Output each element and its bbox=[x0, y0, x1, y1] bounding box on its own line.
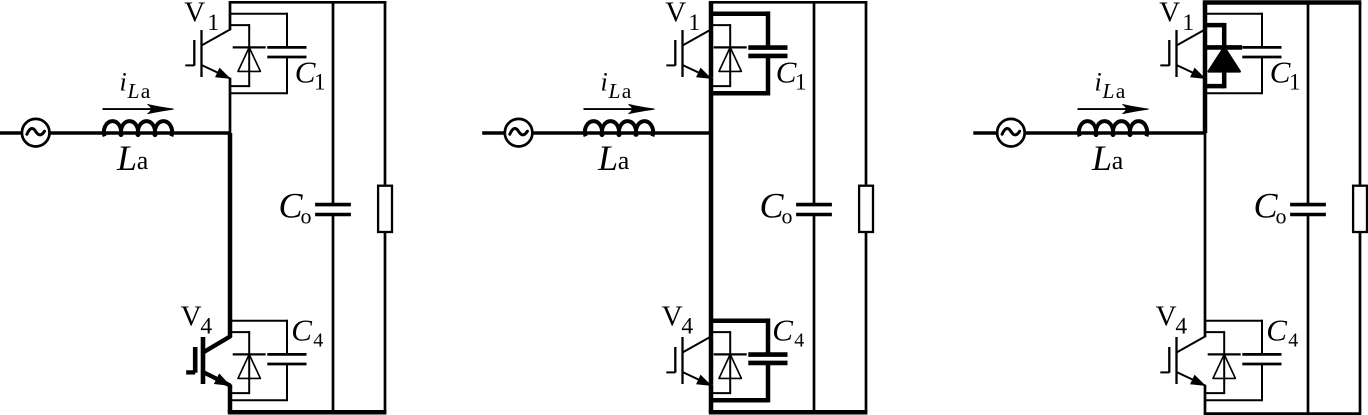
wire: main leg, top rail to V1 collector (circuit 2) bbox=[709, 2, 714, 30]
wire: bottom DC rail (circuit 1) bbox=[228, 410, 387, 415]
svg-text:a: a bbox=[1112, 146, 1124, 175]
wire: main leg, V4 emitter to bottom rail (circuit 1) bbox=[228, 385, 233, 412]
wire: load column upper segment (circuit 2) bbox=[865, 2, 868, 184]
svg-text:o: o bbox=[1276, 204, 1287, 229]
svg-text:a: a bbox=[1116, 79, 1126, 103]
label C_o (circuit 1) bbox=[279, 186, 312, 229]
wire: main leg through V4 span (circuit 2) bbox=[709, 337, 714, 385]
svg-text:V: V bbox=[665, 0, 686, 29]
wire: load column upper segment (circuit 3) bbox=[1359, 3, 1362, 185]
wire: main leg, top rail to V1 collector (circuit 1) bbox=[229, 2, 232, 30]
AC source (circuit 1) bbox=[22, 119, 50, 147]
load resistor (circuit 2) bbox=[859, 186, 873, 232]
svg-text:4: 4 bbox=[200, 313, 212, 339]
IGBT V1 (circuit 3) bbox=[1160, 30, 1205, 79]
label C4 (circuit 3) bbox=[1266, 313, 1298, 352]
svg-text:L: L bbox=[1102, 79, 1115, 103]
wire: bottom DC rail (circuit 2) bbox=[709, 410, 868, 415]
label V4 (circuit 2) bbox=[662, 300, 694, 339]
label i_La (circuit 2) bbox=[601, 68, 632, 103]
svg-text:4: 4 bbox=[1288, 329, 1298, 351]
svg-text:1: 1 bbox=[1289, 70, 1301, 95]
wire: main leg, V1 emitter to midpoint node (circuit 2) bbox=[709, 78, 714, 133]
label C4 (circuit 1) bbox=[291, 313, 323, 352]
svg-text:a: a bbox=[137, 146, 149, 175]
inductor La (circuit 2) bbox=[585, 121, 653, 136]
capacitor C1, snubber across V1 (circuit 1) bbox=[230, 13, 307, 95]
svg-text:i: i bbox=[601, 68, 608, 97]
AC source (circuit 2) bbox=[505, 119, 533, 147]
load resistor (circuit 1) bbox=[378, 186, 392, 232]
label C1 (circuit 1) bbox=[295, 55, 326, 95]
svg-text:L: L bbox=[608, 79, 621, 103]
label L_a (circuit 3) bbox=[1091, 138, 1124, 178]
svg-text:o: o bbox=[782, 204, 793, 229]
wire: load column lower segment (circuit 1) bbox=[384, 233, 387, 412]
capacitor C4, snubber across V4 (circuit 2) bbox=[711, 318, 788, 402]
svg-text:1: 1 bbox=[688, 10, 700, 36]
wire: Co column lower segment (circuit 2) bbox=[813, 215, 816, 413]
svg-text:C: C bbox=[776, 55, 797, 90]
label V1 (circuit 2) bbox=[665, 0, 700, 36]
label L_a (circuit 2) bbox=[597, 138, 630, 178]
wire: bottom DC rail (circuit 3) bbox=[1204, 412, 1362, 415]
wire: Co column lower segment (circuit 1) bbox=[332, 215, 335, 413]
svg-text:1: 1 bbox=[795, 70, 807, 95]
svg-text:C: C bbox=[1266, 313, 1287, 348]
svg-text:a: a bbox=[618, 146, 630, 175]
capacitor C1, snubber across V1 (circuit 2) bbox=[711, 11, 788, 95]
wire: Co column upper segment (circuit 1) bbox=[332, 2, 335, 204]
wire: load column lower segment (circuit 2) bbox=[865, 233, 868, 412]
wire: main leg, V4 emitter to bottom rail (circuit 2) bbox=[709, 385, 714, 412]
wire: AC input line to bridge midpoint (circuit 3) bbox=[973, 131, 1205, 135]
wire: main leg, top rail to V1 collector (circuit 3) bbox=[1203, 3, 1208, 31]
wire: main leg, midpoint node to V4 collector (circuit 2) bbox=[709, 133, 714, 337]
svg-text:V: V bbox=[184, 0, 205, 29]
svg-text:4: 4 bbox=[1175, 313, 1187, 339]
label C1 (circuit 3) bbox=[1270, 55, 1301, 95]
svg-text:C: C bbox=[295, 55, 316, 90]
diode D1, antiparallel with V1 (circuit 2) bbox=[711, 24, 747, 87]
IGBT V4 (circuit 3) bbox=[1160, 337, 1205, 386]
svg-text:4: 4 bbox=[313, 329, 323, 351]
label C_o (circuit 2) bbox=[760, 186, 793, 229]
svg-text:V: V bbox=[181, 300, 202, 332]
svg-text:V: V bbox=[1159, 0, 1180, 29]
label V4 (circuit 1) bbox=[181, 300, 213, 339]
wire: main leg, midpoint node to V4 collector (circuit 3) bbox=[1204, 133, 1207, 337]
diode D4, antiparallel with V4 (circuit 2) bbox=[711, 331, 747, 394]
diode D1, antiparallel with V1 (circuit 3) bbox=[1205, 23, 1242, 88]
wire: Co column lower segment (circuit 3) bbox=[1307, 215, 1310, 414]
current arrow iLa (circuit 2) bbox=[584, 108, 647, 110]
label C4 (circuit 2) bbox=[772, 313, 804, 352]
current arrow iLa (circuit 3) bbox=[1078, 108, 1141, 110]
label L_a (circuit 1) bbox=[116, 138, 149, 178]
diode D1, antiparallel with V1 (circuit 1) bbox=[230, 24, 266, 87]
label V4 (circuit 3) bbox=[1156, 300, 1188, 339]
capacitor C1, snubber across V1 (circuit 3) bbox=[1205, 13, 1282, 95]
wire: main leg, V4 emitter to bottom rail (circuit 3) bbox=[1204, 385, 1207, 414]
label i_La (circuit 3) bbox=[1095, 68, 1126, 103]
svg-text:L: L bbox=[116, 138, 137, 178]
load resistor (circuit 3) bbox=[1353, 186, 1367, 232]
svg-text:1: 1 bbox=[1182, 10, 1194, 36]
label V1 (circuit 3) bbox=[1159, 0, 1194, 36]
wire: main leg through V1 span (circuit 3) bbox=[1203, 30, 1208, 78]
svg-text:i: i bbox=[120, 68, 127, 97]
label i_La (circuit 1) bbox=[120, 68, 151, 103]
current arrow iLa (circuit 1) bbox=[103, 108, 166, 110]
label C_o (circuit 3) bbox=[1254, 186, 1287, 229]
svg-text:L: L bbox=[597, 138, 618, 178]
inductor La (circuit 1) bbox=[104, 121, 172, 136]
wire: main leg, V1 emitter to midpoint node (circuit 3) bbox=[1203, 78, 1208, 133]
capacitor Co (circuit 1) bbox=[315, 205, 351, 215]
wire: AC input line to bridge midpoint (circuit 1) bbox=[0, 131, 230, 135]
svg-text:V: V bbox=[662, 300, 683, 332]
wire: AC input line to bridge midpoint (circuit 2) bbox=[482, 131, 711, 135]
svg-text:4: 4 bbox=[681, 313, 693, 339]
svg-text:C: C bbox=[772, 313, 793, 348]
diode D4, antiparallel with V4 (circuit 1) bbox=[230, 331, 266, 394]
IGBT V4 (circuit 2) bbox=[666, 337, 711, 386]
AC source (circuit 3) bbox=[997, 119, 1025, 147]
wire: top DC rail (circuit 3) bbox=[1203, 0, 1362, 5]
svg-text:L: L bbox=[1091, 138, 1112, 178]
svg-text:1: 1 bbox=[314, 70, 326, 95]
IGBT V1 (circuit 1) bbox=[185, 30, 230, 79]
capacitor Co (circuit 3) bbox=[1290, 205, 1326, 215]
svg-text:C: C bbox=[291, 313, 312, 348]
svg-text:L: L bbox=[127, 79, 140, 103]
diode D4, antiparallel with V4 (circuit 3) bbox=[1205, 331, 1241, 394]
wire: load column upper segment (circuit 1) bbox=[384, 2, 387, 184]
wire: Co column upper segment (circuit 2) bbox=[813, 2, 816, 204]
wire: Co column upper segment (circuit 3) bbox=[1307, 3, 1310, 205]
label C1 (circuit 2) bbox=[776, 55, 807, 95]
inductor La (circuit 3) bbox=[1079, 121, 1147, 136]
svg-text:a: a bbox=[622, 79, 632, 103]
IGBT V1 (circuit 2) bbox=[666, 30, 711, 79]
svg-text:a: a bbox=[141, 79, 151, 103]
wire: top DC rail (circuit 2) bbox=[709, 1, 868, 4]
wire: load column lower segment (circuit 3) bbox=[1359, 233, 1362, 414]
capacitor Co (circuit 2) bbox=[796, 205, 832, 215]
capacitor C4, snubber across V4 (circuit 1) bbox=[230, 320, 307, 402]
wire: main leg, midpoint node to V4 collector (circuit 1) bbox=[228, 133, 233, 337]
svg-text:o: o bbox=[301, 204, 312, 229]
svg-text:4: 4 bbox=[794, 329, 804, 351]
IGBT V4 (circuit 1) bbox=[186, 337, 230, 386]
svg-text:1: 1 bbox=[207, 10, 219, 36]
svg-text:C: C bbox=[1270, 55, 1291, 90]
svg-text:V: V bbox=[1156, 300, 1177, 332]
label V1 (circuit 1) bbox=[184, 0, 219, 36]
capacitor C4, snubber across V4 (circuit 3) bbox=[1205, 320, 1282, 402]
wire: main leg, V1 emitter to midpoint node (circuit 1) bbox=[229, 78, 232, 133]
wire: main leg through V1 span (circuit 2) bbox=[709, 30, 714, 78]
svg-text:i: i bbox=[1095, 68, 1102, 97]
wire: top DC rail (circuit 1) bbox=[229, 1, 387, 4]
